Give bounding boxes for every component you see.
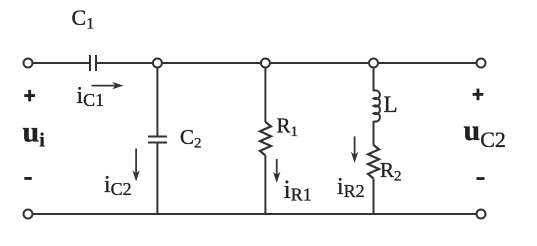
terminal top-right [477,59,486,68]
node top L [369,59,378,68]
svg-text:C2: C2 [180,125,202,152]
resistor R1 [260,122,271,156]
label uI minus [24,177,32,180]
label uI plus [24,90,35,102]
arrow i_R2 [351,136,358,163]
svg-text:iC2: iC2 [104,172,132,199]
capacitor C2 [148,137,167,143]
svg-text:iR1: iR1 [284,175,312,205]
label uC2 minus [477,177,485,180]
terminal bottom-right [477,210,486,219]
terminal top-left [24,59,33,68]
terminal bottom-left [24,210,33,219]
arrow i_C1 [92,82,124,89]
resistor R2 [368,145,379,179]
arrow i_R1 [273,159,280,183]
svg-text:R2: R2 [380,158,402,185]
wire branch L R2 vertical [373,63,375,214]
svg-text:iR2: iR2 [337,174,365,201]
node top R1 [261,59,270,68]
svg-text:L: L [384,92,398,117]
wire bottom rail [33,213,477,215]
inductor L [374,90,380,121]
wire branch R1 vertical [264,63,266,214]
capacitor C1 [90,55,96,71]
svg-text:R1: R1 [277,114,299,141]
wire branch C2 vertical [156,63,158,214]
label uC2 plus [473,89,484,101]
arrow i_C2 [132,149,139,182]
wire top rail [33,62,477,64]
svg-text:uC2: uC2 [464,114,506,152]
svg-text:iC1: iC1 [77,83,105,110]
svg-text:C1: C1 [72,5,95,33]
node top C2 [153,59,162,68]
svg-text:ui: ui [23,115,46,151]
